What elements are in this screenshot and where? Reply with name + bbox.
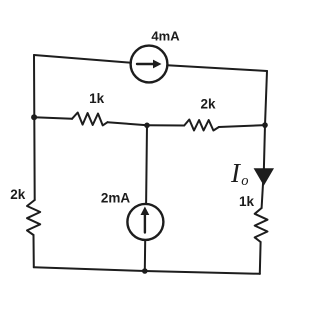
svg-text:1k: 1k [89,91,105,106]
current source I2 2mA (circle) [127,204,163,240]
wire right vertical upper [264,71,267,168]
junction node dot right [262,122,268,128]
svg-text:4mA: 4mA [151,29,180,44]
wire middle vertical lower [144,240,146,271]
wire R1 to middle node [108,122,148,125]
arrow head of I1 [153,60,162,69]
junction node dot left [31,114,37,120]
wire right through triangle [262,168,264,208]
wire right vertical lower [259,242,262,274]
arrow shaft of I2 [144,213,146,233]
wire middle vertical upper [145,125,148,204]
junction node dot middle [144,123,150,129]
wire left vertical upper [33,55,36,200]
wire bottom [34,267,260,274]
wire current source to top-right corner [167,65,267,71]
svg-text:2k: 2k [200,97,216,112]
wire R2 to right node [219,125,265,127]
arrow shaft of I1 [137,63,155,65]
arrow head of I2 [141,207,150,216]
wire middle node-left to R1 [34,117,72,119]
current direction arrow Io (filled triangle) [254,168,274,186]
resistor R1 1k (horizontal zigzag) [72,113,108,126]
svg-text:1k: 1k [239,194,255,209]
wire middle node to R2 [147,124,184,126]
junction node dot bottom [142,268,148,274]
svg-text:2mA: 2mA [101,191,131,206]
resistor R2 2k (horizontal zigzag) [184,120,219,131]
current source I1 4mA (circle) [131,46,168,83]
wire top-left to current source [34,55,131,63]
resistor R-right 1k (vertical zigzag) [255,208,268,242]
svg-text:2k: 2k [10,187,26,202]
svg-text:I o: I o [230,158,248,189]
resistor R-left 2k (vertical zigzag) [27,200,40,235]
wire left vertical lower [33,235,35,267]
